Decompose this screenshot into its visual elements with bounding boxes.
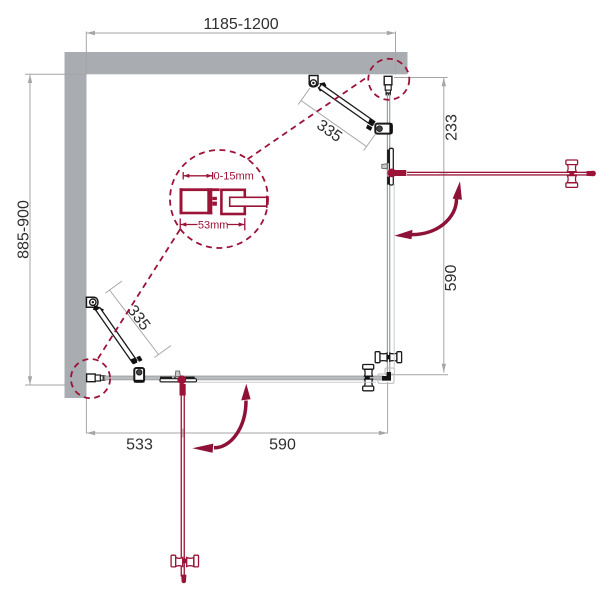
dimension 233: [394, 78, 448, 373]
door bottom handle: [171, 555, 198, 567]
door right handle: [566, 160, 578, 187]
svg-text:233: 233: [444, 114, 461, 141]
wall profile top (right fixed panel): [384, 76, 392, 94]
wall profile left (bottom fixed panel): [87, 374, 106, 382]
label 590 bottom: [269, 437, 296, 454]
profile cross-section: wall channel: [180, 188, 220, 214]
label 233: [444, 114, 461, 141]
svg-text:0-15mm: 0-15mm: [214, 171, 254, 183]
door right (open position, red): [387, 169, 588, 178]
support bar top-right: bar: [319, 84, 375, 125]
svg-text:590: 590: [443, 265, 460, 292]
hinge right door: [387, 148, 393, 185]
dimension 533: [86, 382, 387, 438]
corner connector L: [382, 372, 391, 381]
label 1185-1200: [203, 16, 278, 33]
glass bottom fixed+door (horizontal band): [105, 376, 384, 380]
hinge bottom door: [160, 377, 197, 382]
label 53mm: [198, 220, 229, 232]
door right end tip: [587, 171, 596, 176]
label 335 bottom-left: [124, 302, 154, 334]
dimension 590 right: [391, 374, 448, 376]
handle on vertical door (horizontal spool): [375, 352, 401, 363]
handle on horizontal door (vertical spool): [363, 365, 374, 391]
detail circle bottom-left (wall profile): [71, 359, 110, 398]
svg-text:885-900: 885-900: [16, 200, 33, 259]
label 533: [126, 437, 153, 454]
support bar bottom-left: joint: [93, 305, 104, 313]
dimension 0-15mm: [183, 172, 212, 180]
swing arc bottom door: [192, 384, 250, 453]
support bar top-right: wall bracket: [309, 76, 318, 87]
hinge tab bottom: [175, 371, 180, 377]
profile cross-section: glass profile: [221, 190, 266, 214]
dimension 1185-1200: [86, 32, 395, 75]
swing arc right door: [394, 181, 462, 239]
profile cross-section: insert bar: [207, 188, 217, 214]
label 0-15mm: [214, 171, 254, 183]
leader to top-right circle: [248, 77, 369, 160]
glass clamp top-right: [375, 123, 392, 134]
door bottom edge line (faint): [197, 381, 377, 383]
svg-text:590: 590: [269, 437, 296, 454]
hinge tab right: [382, 164, 387, 169]
svg-text:533: 533: [126, 437, 153, 454]
wall top: [65, 52, 408, 74]
door right edge line (faint): [393, 184, 395, 368]
leader to bottom-left circle: [97, 230, 180, 360]
support bar top-right: joint at glass: [366, 119, 375, 131]
door bottom (open position, red): [177, 375, 186, 576]
dimension 885-900: [25, 74, 86, 385]
support bar top-right: joint: [318, 82, 327, 91]
corner bracket outline boxes: [378, 368, 394, 383]
svg-text:53mm: 53mm: [198, 220, 229, 232]
label 885-900: [16, 200, 33, 259]
dimension 335 top-right: [298, 88, 375, 151]
glass right fixed+door (vertical double line): [387, 94, 389, 372]
label 335 top-right: [313, 117, 345, 146]
wall left: [65, 52, 87, 398]
dimension 335 bottom-left: [106, 281, 172, 358]
support bar bottom-left: bar: [96, 308, 137, 364]
support bar bottom-left: wall bracket: [86, 297, 98, 307]
support bar bottom-left: joint at glass: [131, 356, 143, 365]
glass clamp bottom-left: [134, 368, 145, 383]
detail circle (dashed): [170, 150, 268, 248]
svg-text:1185-1200: 1185-1200: [203, 16, 278, 33]
label 590 right: [443, 265, 460, 292]
door bottom end tip: [181, 575, 186, 584]
detail circle top-right (wall profile): [368, 59, 409, 100]
dimension 53mm: [180, 218, 245, 230]
